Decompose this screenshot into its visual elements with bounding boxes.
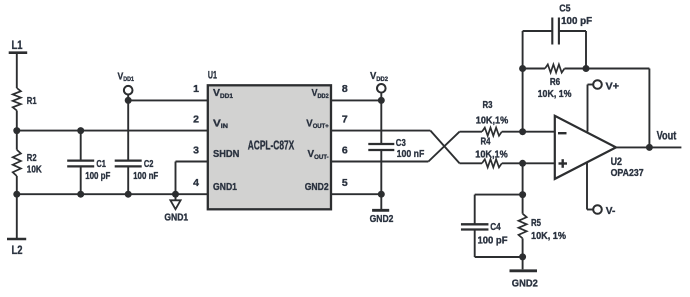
svg-text:GND2: GND2 bbox=[370, 213, 394, 225]
svg-text:GND2: GND2 bbox=[305, 181, 329, 193]
svg-text:U1: U1 bbox=[208, 69, 217, 81]
svg-text:2: 2 bbox=[193, 113, 199, 125]
svg-text:OPA237: OPA237 bbox=[611, 167, 644, 179]
svg-text:GND1: GND1 bbox=[164, 212, 188, 224]
svg-text:1: 1 bbox=[193, 83, 199, 95]
svg-text:R5: R5 bbox=[531, 217, 541, 229]
svg-text:C1: C1 bbox=[96, 158, 106, 170]
svg-text:R1: R1 bbox=[27, 95, 37, 107]
svg-text:5: 5 bbox=[342, 177, 348, 189]
svg-text:100 nF: 100 nF bbox=[397, 148, 425, 160]
svg-text:10K,1%: 10K,1% bbox=[476, 114, 509, 126]
svg-text:C5: C5 bbox=[559, 3, 570, 15]
svg-text:R3: R3 bbox=[483, 99, 493, 111]
svg-text:GND2: GND2 bbox=[512, 278, 538, 290]
svg-text:100 pF: 100 pF bbox=[561, 15, 593, 27]
svg-text:7: 7 bbox=[342, 113, 348, 125]
svg-text:R4: R4 bbox=[481, 136, 491, 148]
svg-text:10K, 1%: 10K, 1% bbox=[531, 230, 567, 242]
svg-text:SHDN: SHDN bbox=[213, 148, 239, 160]
svg-text:10K, 1%: 10K, 1% bbox=[538, 88, 572, 100]
svg-text:R2: R2 bbox=[27, 152, 37, 164]
svg-text:6: 6 bbox=[342, 144, 348, 156]
svg-text:Vout: Vout bbox=[657, 129, 677, 143]
svg-text:100 pF: 100 pF bbox=[85, 170, 111, 182]
svg-text:3: 3 bbox=[193, 144, 199, 156]
svg-text:C4: C4 bbox=[490, 221, 501, 233]
svg-text:L2: L2 bbox=[12, 245, 23, 257]
svg-text:100 pF: 100 pF bbox=[478, 235, 509, 247]
svg-text:R6: R6 bbox=[550, 76, 560, 88]
svg-text:4: 4 bbox=[193, 177, 199, 189]
svg-text:10K: 10K bbox=[27, 164, 42, 176]
svg-text:100 nF: 100 nF bbox=[133, 170, 159, 182]
svg-text:GND1: GND1 bbox=[213, 181, 237, 193]
svg-text:V+: V+ bbox=[606, 80, 620, 92]
svg-text:L1: L1 bbox=[12, 40, 23, 52]
svg-text:10K,1%: 10K,1% bbox=[475, 149, 508, 161]
svg-text:ACPL-C87X: ACPL-C87X bbox=[248, 137, 295, 152]
svg-text:C2: C2 bbox=[144, 158, 154, 170]
svg-text:8: 8 bbox=[342, 83, 348, 95]
svg-text:V-: V- bbox=[606, 205, 616, 217]
